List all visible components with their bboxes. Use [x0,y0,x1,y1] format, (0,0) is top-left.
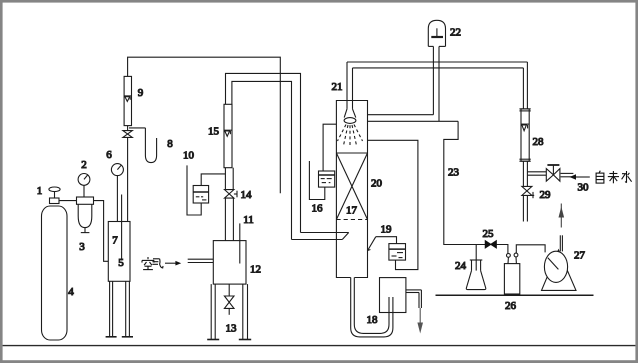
U-tube seal 18 [351,278,393,337]
flask 24 [466,245,486,290]
drain stub and arrow from seal box [406,290,423,334]
packing X [336,153,367,220]
wire regulator to column 7 [94,201,109,262]
svg-text:4: 4 [68,286,74,298]
valve 1 (cylinder hand-wheel) [49,187,60,204]
rotameter 15 [224,104,232,167]
item 22 (vent cap) [428,20,445,46]
bubbler 16 [309,124,336,199]
svg-text:29: 29 [540,189,552,201]
svg-text:3: 3 [79,241,85,253]
wire valve1 to regulator [59,200,77,202]
tap water arrow 30 [570,174,590,180]
pipe below rotameter 28 to tee [523,161,527,186]
rotameter 9 [124,76,131,125]
regulator 3 [77,197,94,233]
svg-text:15: 15 [208,126,220,138]
svg-text:7: 7 [112,235,118,247]
gas duct into column 20 (slant-cut) [292,233,349,240]
svg-text:12: 12 [250,264,261,276]
column 20 (packed absorption column) [336,101,367,278]
air inlet text 空气 [142,257,163,270]
svg-text:24: 24 [455,260,467,272]
svg-text:13: 13 [226,323,238,335]
svg-text:11: 11 [243,214,254,226]
seal box of 18 [380,278,406,313]
svg-text:2: 2 [81,159,87,171]
spray dashed rays [338,125,363,148]
svg-text:8: 8 [167,138,173,150]
svg-text:25: 25 [483,228,495,240]
valve 13 (drain of mixer) [224,284,234,315]
bottle 26 [504,245,545,294]
valve below rotameter 9 [123,126,132,138]
svg-text:17: 17 [346,205,358,217]
gauge 6 (pressure gauge) [111,164,123,222]
svg-text:27: 27 [574,250,586,262]
svg-text:28: 28 [533,136,545,148]
column 5/7 (saturator vessel) [108,222,130,282]
wire valve 25 to bottle 26 [496,245,508,254]
bottom rule line [3,345,636,347]
bubbler 10 [187,165,225,215]
svg-text:9: 9 [138,87,144,99]
svg-text:6: 6 [106,149,112,161]
svg-text:19: 19 [381,224,393,236]
svg-text:14: 14 [241,189,253,201]
air inlet double pipe [188,259,214,262]
drain pipe below valve 29 [523,195,527,221]
dip tube into column 7 [121,195,123,261]
gas outlet line to bubbler 19 [368,140,418,269]
gas cylinder 4 [42,206,68,340]
valve 14 [225,190,238,199]
wire rotameter 9 top over to free end near column [128,57,281,193]
dip line 11 into mixer 12 [239,223,241,263]
column 5/7 legs [106,281,133,337]
mixer 12 legs [207,284,251,339]
pipe from 22 down into column (double) [368,46,459,121]
valve 25 (pinch clamp, solid) [485,241,496,248]
svg-text:22: 22 [450,27,461,39]
gauge 2 (pressure gauge) [78,174,90,198]
wire rotameter 15 to valve 14 (double) [225,168,233,190]
svg-text:26: 26 [505,300,517,312]
wire valve below rotameter 9 down to column 7 [127,137,129,221]
svg-text:10: 10 [183,150,195,162]
svg-text:18: 18 [367,314,379,326]
top water run (double pipe) [347,62,527,68]
packing support line [336,152,367,154]
svg-text:23: 23 [448,167,460,179]
spray nozzle 21 [344,62,356,123]
line 23 (gas line to sampling train) [444,121,486,244]
wire valve 14 to mixer 12 (double) [225,198,233,241]
svg-text:5: 5 [118,257,124,269]
tap water text 自来水 [596,171,632,184]
svg-text:30: 30 [578,182,590,194]
tap water globe valve [546,165,560,181]
mixer 12 [213,241,246,285]
baseline under sampling train [436,294,594,296]
bubbler 19 [368,237,406,260]
manometer 8 (open U-tube) [129,128,157,163]
valve 29 [522,186,534,198]
svg-text:21: 21 [332,81,343,93]
air arrow [165,261,181,266]
pipe valve to arrow (double) [561,173,574,176]
svg-text:16: 16 [312,203,324,215]
rotameter 28 [519,62,530,161]
pump 27 [542,204,577,291]
tee to tap-water valve (double) [527,172,546,175]
packing bottom dashed line 17 [336,219,367,221]
wire rotameter 15 up and over (double pipe) [226,73,301,232]
svg-text:1: 1 [37,185,43,197]
svg-text:20: 20 [371,178,383,190]
